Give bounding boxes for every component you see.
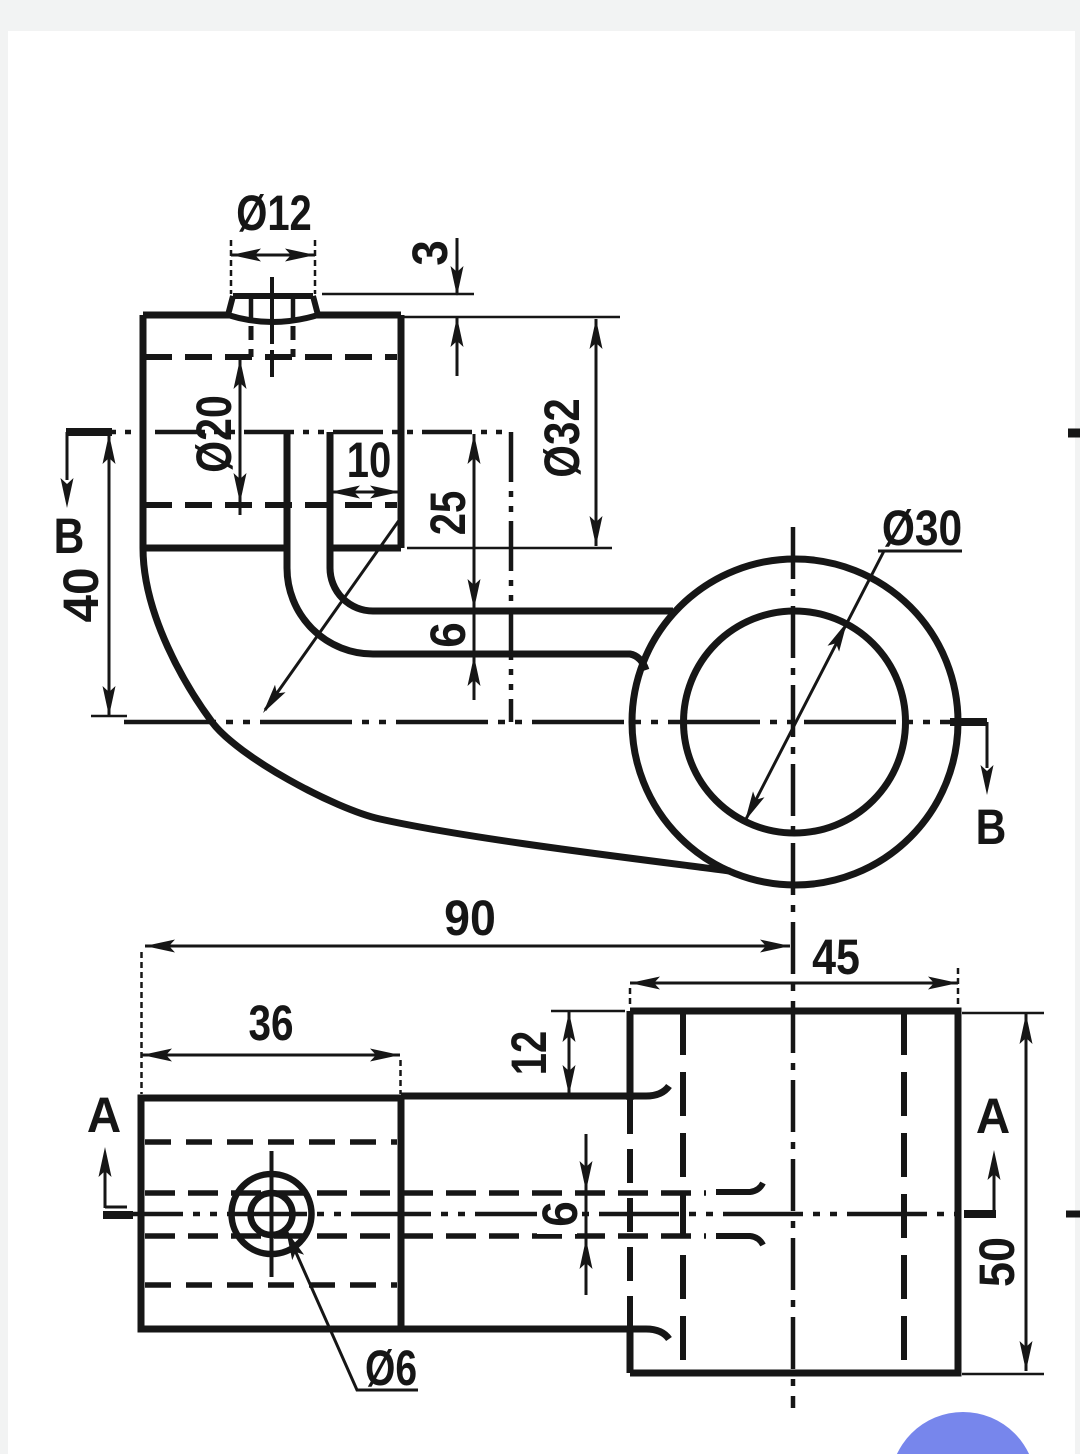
dim 10 line bbox=[330, 491, 400, 494]
hub bore hidden lines (plan) bbox=[683, 1011, 904, 1373]
dim d30 text bbox=[882, 500, 962, 556]
dim d12 line bbox=[231, 254, 315, 257]
dim 50 line bbox=[1025, 1014, 1028, 1371]
svg-text:40: 40 bbox=[53, 567, 109, 622]
dim 45 line bbox=[630, 982, 958, 985]
section arrow A right bbox=[993, 1162, 996, 1212]
dim 40 arrows bbox=[103, 434, 116, 716]
plate top edge with runout hook bbox=[401, 1086, 669, 1096]
dim 3 arrows bbox=[451, 266, 464, 347]
section line A-A bbox=[103, 1212, 990, 1217]
plate bottom edge with runout hook bbox=[401, 1329, 669, 1339]
dim d32 arrows bbox=[590, 319, 603, 546]
hole circle d6 (plan) bbox=[251, 1193, 293, 1235]
dim 12 arrows bbox=[563, 1012, 576, 1095]
dim 40 line bbox=[108, 434, 111, 716]
svg-text:A: A bbox=[87, 1087, 121, 1143]
dim 3 line bbox=[456, 238, 459, 376]
section line B-B vertical jog bbox=[509, 432, 514, 722]
dim d32 line bbox=[595, 319, 598, 546]
section line B-B horizontal bottom (hub centerline) bbox=[124, 720, 987, 725]
hub inner circle d30 bbox=[684, 611, 906, 833]
outer profile sweeping curve to hub bbox=[143, 548, 730, 871]
label B right bbox=[976, 799, 1007, 855]
dim 12 text bbox=[501, 1031, 557, 1076]
hidden lines: d6 hole below boss bbox=[251, 326, 293, 357]
section line A-A bold end dash right bbox=[964, 1210, 996, 1218]
arm outer bend (left slot edge) bbox=[287, 432, 373, 654]
svg-text:3: 3 bbox=[402, 240, 458, 266]
dim 6 text (plan) bbox=[532, 1196, 588, 1234]
dim 3 extension lines bbox=[322, 294, 620, 317]
dim d30 arrows bbox=[745, 622, 847, 821]
arm upper horizontal line bbox=[373, 608, 673, 615]
section line B-B horizontal top segment bbox=[66, 430, 511, 435]
svg-text:12: 12 bbox=[501, 1031, 557, 1076]
blue floating action button bbox=[890, 1412, 1036, 1454]
dim 6 arrows (plan) bbox=[580, 1161, 593, 1269]
boss on top of block bbox=[228, 296, 318, 322]
dim 36 line bbox=[142, 1054, 400, 1057]
dim 36 arrows bbox=[142, 1049, 400, 1062]
cylinder block rectangle bbox=[141, 1098, 401, 1329]
boss vertical centerline bbox=[270, 277, 274, 377]
dim d12 arrows bbox=[231, 249, 315, 262]
dim 40 text bbox=[53, 567, 109, 622]
svg-text:6: 6 bbox=[420, 622, 476, 648]
dim 45 arrows bbox=[630, 977, 958, 990]
section arrow B right bbox=[986, 722, 989, 768]
extension tick at left end of hub centerline bbox=[91, 715, 127, 718]
dim 50 arrows bbox=[1020, 1014, 1033, 1371]
hidden line: bore d20 bottom bbox=[145, 502, 397, 508]
section line A-A bold end dash left bbox=[103, 1211, 133, 1219]
label A right bbox=[976, 1088, 1010, 1144]
dim 45 text bbox=[812, 929, 860, 985]
dim 90 arrows bbox=[145, 940, 790, 953]
dim 25 text bbox=[420, 491, 476, 536]
hub left edge dashed part bbox=[627, 1100, 633, 1326]
section line B-B bold end dash left bbox=[66, 428, 112, 436]
dim d32 text bbox=[534, 398, 590, 477]
hidden lines: arm edges bbox=[145, 1193, 706, 1236]
label A left bbox=[87, 1087, 121, 1143]
svg-text:Ø32: Ø32 bbox=[534, 398, 590, 477]
svg-text:36: 36 bbox=[248, 995, 293, 1051]
dim 25 line bbox=[473, 434, 476, 700]
dim 36 text bbox=[248, 995, 293, 1051]
section arrow B left bbox=[66, 432, 69, 480]
arm inner bend (right slot edge) bbox=[330, 432, 373, 611]
boss circle d12 (plan) bbox=[232, 1174, 312, 1254]
hidden line: bore d20 top bbox=[145, 354, 397, 360]
dim 6 arrow (front) bbox=[468, 656, 481, 686]
hub left edge hidden middle portion bbox=[627, 1011, 634, 1373]
label B left bbox=[54, 508, 85, 564]
svg-text:90: 90 bbox=[444, 890, 496, 946]
svg-text:6: 6 bbox=[532, 1201, 588, 1227]
svg-text:50: 50 bbox=[969, 1237, 1025, 1287]
svg-text:Ø30: Ø30 bbox=[882, 500, 962, 556]
dim 10 text bbox=[347, 432, 392, 488]
dim 90 extension line bbox=[140, 952, 143, 1094]
dim 6 text (front) bbox=[420, 622, 476, 648]
svg-text:B: B bbox=[54, 508, 85, 564]
svg-text:Ø20: Ø20 bbox=[186, 395, 242, 473]
dim 45 extension lines bbox=[630, 968, 958, 1006]
section line B-B bold end dash right bbox=[950, 718, 987, 726]
dim d12 text bbox=[236, 185, 312, 241]
section arrow A left bbox=[105, 1160, 127, 1208]
dim 25 arrows bbox=[468, 434, 481, 609]
dim 90 line bbox=[145, 945, 790, 948]
svg-text:10: 10 bbox=[347, 432, 392, 488]
hole vertical centerline (plan) bbox=[270, 1151, 274, 1277]
svg-text:Ø6: Ø6 bbox=[365, 1340, 417, 1396]
cylinder block outline bbox=[143, 315, 401, 548]
dim 10 arrows bbox=[330, 486, 400, 499]
stray mark at right page edge (plan) bbox=[1066, 1211, 1080, 1218]
dim 50 text bbox=[969, 1237, 1025, 1287]
hub block outline (plan) bbox=[630, 1011, 958, 1373]
dim 12 line bbox=[568, 1011, 571, 1096]
svg-text:B: B bbox=[976, 799, 1007, 855]
thin diagonal leader in arm area bbox=[265, 519, 400, 710]
hub outer circle bbox=[632, 559, 958, 885]
dim 50 extension lines bbox=[962, 1013, 1044, 1374]
dim 36 extension line bbox=[399, 1060, 402, 1094]
dim d20 line bbox=[239, 359, 242, 515]
dim d30 leader line bbox=[745, 551, 962, 821]
dim 90 text bbox=[444, 890, 496, 946]
dim d20 text bbox=[186, 395, 242, 473]
hub vertical centerline bbox=[791, 527, 796, 1408]
svg-text:45: 45 bbox=[812, 929, 860, 985]
dim d12 extension lines bbox=[231, 240, 315, 294]
dim d20 arrows bbox=[234, 359, 247, 503]
dim 3 text bbox=[402, 240, 458, 266]
label d6 text bbox=[365, 1340, 417, 1396]
stray mark at right page edge (front view) bbox=[1068, 429, 1080, 438]
leader d6 bbox=[286, 1230, 418, 1390]
svg-text:Ø12: Ø12 bbox=[236, 185, 312, 241]
svg-text:A: A bbox=[976, 1088, 1010, 1144]
dim d32 extension line bottom bbox=[407, 547, 612, 550]
svg-text:25: 25 bbox=[420, 491, 476, 536]
arm lower horizontal line with fillet into hub bbox=[373, 654, 646, 670]
arm runout lines inside bore bbox=[716, 1183, 763, 1192]
dim 12 extension line bbox=[551, 1010, 625, 1013]
dim 6 line (plan) bbox=[585, 1134, 588, 1295]
hidden lines: bore d20 in block bbox=[145, 1142, 397, 1285]
